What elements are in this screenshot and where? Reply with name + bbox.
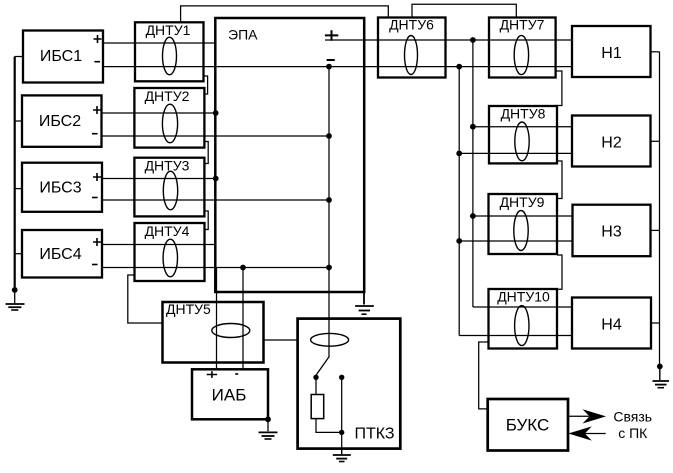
svg-text:ДНТУ1: ДНТУ1 bbox=[146, 22, 191, 38]
plus terminal ИАБ bbox=[207, 371, 217, 378]
ground: right earth symbol bbox=[653, 366, 670, 387]
wire: ИБС3 minus to ЭПА internal bus bbox=[102, 199, 329, 201]
ground: under ЭПА bottom-right corner bbox=[355, 292, 374, 314]
wire: stub ИБС1 to left bus bbox=[15, 56, 23, 58]
wire: stub ИБС2 to left bus bbox=[15, 120, 22, 122]
wire: ИБС3 plus to ЭПА bbox=[102, 178, 216, 180]
block ДНТУ4 bbox=[135, 223, 205, 281]
block Н2 bbox=[572, 116, 651, 167]
sensor coil ДНТУ3 bbox=[163, 171, 177, 210]
minus terminal ИБС2 bbox=[92, 133, 98, 135]
junction: minus bus row4 bbox=[326, 265, 332, 271]
plus terminal ЭПА bbox=[325, 30, 338, 41]
block ИАБ bbox=[192, 369, 268, 419]
svg-text:ДНТУ6: ДНТУ6 bbox=[389, 17, 434, 33]
minus terminal ЭПА bbox=[327, 59, 335, 61]
contact dot left bbox=[313, 375, 318, 380]
minus terminal ИБС1 bbox=[94, 61, 100, 63]
wire: ДНТУ10 lower run to Н4 bbox=[459, 335, 572, 337]
wire: stub ИБС3 to left bus bbox=[15, 188, 22, 190]
junction: minus feeder top bbox=[456, 64, 462, 70]
junction: left bus to ground bbox=[12, 287, 18, 293]
wire: right bus vertical bbox=[659, 52, 661, 367]
svg-text:ИБС2: ИБС2 bbox=[39, 113, 81, 130]
wire: Н4 stub to right bus bbox=[651, 322, 660, 324]
sensor coil ДНТУ10 bbox=[515, 306, 529, 346]
wire: ДНТУ8 upper run to Н2 bbox=[473, 126, 572, 128]
wire: ИБС4 minus to ЭПА internal bus bbox=[102, 267, 329, 269]
junction: plus feeder row2 bbox=[470, 124, 476, 130]
block Н4 bbox=[572, 298, 651, 349]
block ИБС3 bbox=[22, 163, 102, 212]
sensor coil ДНТУ4 bbox=[163, 239, 177, 277]
wire: ДНТУ5 to ПТКЗ bbox=[264, 339, 298, 341]
plus terminal ИБС3 bbox=[93, 173, 101, 181]
svg-text:Н2: Н2 bbox=[601, 135, 622, 152]
wire: stub ИБС4 to left bus bbox=[15, 253, 22, 255]
wire: plus feeder vertical bbox=[472, 40, 474, 307]
block БУКС bbox=[488, 399, 568, 451]
svg-text:ИАБ: ИАБ bbox=[212, 386, 247, 405]
svg-text:ИБС3: ИБС3 bbox=[39, 179, 81, 196]
junction: right bus to ground bbox=[657, 364, 663, 370]
wire: Н1 stub to right bus bbox=[651, 51, 660, 53]
wire: chain link ДНТУ8 to ДНТУ9 bbox=[557, 161, 562, 199]
junction: ИАБ to ground bbox=[265, 416, 271, 422]
resistor ПТКЗ bbox=[311, 395, 324, 419]
svg-text:Н3: Н3 bbox=[601, 224, 622, 241]
wire: ДНТУ9 upper run to Н3 bbox=[473, 215, 572, 217]
svg-text:БУКС: БУКС bbox=[506, 416, 550, 435]
svg-text:Н1: Н1 bbox=[601, 45, 622, 62]
sensor coil ДНТУ2 bbox=[162, 104, 177, 143]
svg-text:ПТКЗ: ПТКЗ bbox=[354, 426, 394, 443]
wire: ДНТУ10 to БУКС bbox=[479, 342, 489, 409]
block ДНТУ2 bbox=[134, 88, 204, 148]
wire: top chain ДНТУ6 to ДНТУ7 bbox=[412, 4, 516, 17]
svg-text:ДНТУ10: ДНТУ10 bbox=[497, 288, 550, 304]
wire: top chain ДНТУ1 to ДНТУ6 bbox=[181, 6, 389, 22]
block ДНТУ3 bbox=[134, 158, 204, 217]
wire: Н3 stub to right bus bbox=[651, 229, 660, 231]
svg-text:ДНТУ3: ДНТУ3 bbox=[145, 158, 190, 174]
minus terminal ИБС3 bbox=[92, 197, 98, 199]
wire: ИБС2 minus to ЭПА internal bus bbox=[102, 135, 330, 137]
wire: resistor to bottom junction bbox=[316, 419, 342, 433]
svg-text:ИБС1: ИБС1 bbox=[40, 48, 82, 65]
junction: ИБС3 plus at ЭПА edge bbox=[213, 176, 219, 182]
junction: minus bus row1 bbox=[326, 64, 332, 70]
block ДНТУ10 bbox=[489, 288, 558, 348]
svg-text:ДНТУ7: ДНТУ7 bbox=[500, 17, 545, 33]
sensor coil ДНТУ7 bbox=[514, 35, 528, 74]
junction: ИАБ minus tap bbox=[240, 265, 246, 271]
wire: chain link ДНТУ9 to ДНТУ10 bbox=[557, 255, 562, 289]
wire: ЭПА internal minus bus bbox=[328, 67, 330, 358]
wire: right contact down to ground bbox=[341, 377, 343, 448]
contact dot right bbox=[339, 375, 344, 380]
minus terminal ИБС4 bbox=[92, 264, 98, 266]
block ЭПА bbox=[215, 18, 364, 292]
block ДНТУ9 bbox=[489, 194, 558, 254]
ground: under ПТКЗ bbox=[333, 449, 351, 462]
wire: chain link ДНТУ3 to ДНТУ4 bbox=[205, 211, 209, 230]
block ДНТУ1 bbox=[135, 22, 204, 82]
wire: Н2 stub to right bus bbox=[651, 140, 660, 142]
block ИБС2 bbox=[22, 95, 102, 146]
wire: chain link ДНТУ4 to ДНТУ5 bbox=[128, 275, 163, 323]
wire: ДНТУ8 lower run to Н2 bbox=[459, 152, 572, 154]
block ИБС4 bbox=[22, 230, 102, 278]
block ДНТУ7 bbox=[489, 17, 556, 78]
block ДНТУ5 bbox=[163, 301, 264, 363]
junction: plus feeder row3 bbox=[470, 213, 476, 219]
svg-text:ДНТУ9: ДНТУ9 bbox=[500, 194, 545, 210]
block ИБС1 bbox=[23, 31, 103, 83]
sensor coil ДНТУ6 bbox=[405, 36, 418, 75]
junction: resistor bottom to right branch bbox=[339, 430, 344, 435]
svg-text:Связь: Связь bbox=[613, 409, 652, 425]
block ПТКЗ bbox=[298, 319, 401, 449]
block ДНТУ6 bbox=[378, 17, 446, 78]
wire: minus feeder vertical bbox=[458, 67, 460, 336]
svg-text:Н4: Н4 bbox=[601, 317, 622, 334]
svg-text:ДНТУ8: ДНТУ8 bbox=[501, 106, 546, 122]
wire: ИБС2 plus to ЭПА bbox=[102, 112, 216, 114]
sensor coil ДНТУ1 bbox=[163, 37, 177, 75]
wire: chain link ДНТУ7 to ДНТУ8 bbox=[556, 71, 562, 106]
arrow: БУКС output to PC bbox=[568, 409, 606, 423]
plus terminal ИБС4 bbox=[93, 238, 101, 246]
wire: ДНТУ9 lower run to Н3 bbox=[459, 240, 572, 242]
arrow: PC input to БУКС bbox=[568, 426, 605, 440]
ground: under ИАБ bbox=[259, 419, 278, 439]
plus terminal ИБС1 bbox=[94, 35, 102, 43]
junction: minus feeder row2 bbox=[456, 151, 462, 157]
block ДНТУ8 bbox=[489, 106, 557, 164]
wire: ИАБ minus drop through ДНТУ5 bbox=[242, 268, 244, 370]
junction: minus bus row2 bbox=[326, 133, 332, 139]
sensor coil ПТКЗ bbox=[311, 333, 349, 346]
svg-text:с ПК: с ПК bbox=[618, 425, 648, 441]
junction: minus bus row3 bbox=[326, 197, 332, 203]
svg-text:ДНТУ5: ДНТУ5 bbox=[166, 301, 211, 317]
svg-text:ИБС4: ИБС4 bbox=[39, 246, 81, 263]
block Н3 bbox=[573, 205, 651, 257]
wire: ИАБ plus drop through ДНТУ5 bbox=[216, 268, 218, 370]
plus terminal ИБС2 bbox=[93, 106, 101, 114]
wire: ДНТУ10 upper run to Н4 bbox=[473, 306, 572, 308]
wire: ИБС4 plus to ЭПА bbox=[102, 244, 215, 246]
switch blade ПТКЗ bbox=[316, 357, 329, 376]
svg-text:ЭПА: ЭПА bbox=[228, 27, 258, 43]
svg-text:ДНТУ2: ДНТУ2 bbox=[145, 88, 190, 104]
sensor coil ДНТУ8 bbox=[515, 122, 529, 161]
svg-text:ДНТУ4: ДНТУ4 bbox=[145, 223, 190, 239]
junction: plus feeder top bbox=[470, 37, 476, 43]
wire: chain link ДНТУ1 to ДНТУ2 bbox=[204, 76, 208, 94]
sensor coil ДНТУ5 bbox=[212, 324, 250, 338]
wire: ИБС1 minus through ЭПА to ДНТУ6 ДНТУ7 Н1 bbox=[103, 66, 572, 68]
block Н1 bbox=[572, 26, 651, 77]
wire: left contact to resistor bbox=[315, 377, 317, 394]
junction: minus feeder row3 bbox=[456, 238, 462, 244]
wire: left ground bus vertical bbox=[14, 57, 16, 290]
sensor coil ДНТУ9 bbox=[514, 211, 528, 251]
wire: ЭПА plus output to ДНТУ6 ДНТУ7 Н1 bbox=[325, 39, 572, 41]
wire: chain link ДНТУ2 to ДНТУ3 bbox=[205, 142, 209, 164]
wire: ИБС1 plus to ЭПА bbox=[103, 42, 215, 44]
ground: bottom-left earth symbol bbox=[6, 290, 25, 310]
minus terminal ИАБ bbox=[235, 373, 238, 375]
junction: ИБС2 plus at ЭПА edge bbox=[213, 110, 219, 116]
